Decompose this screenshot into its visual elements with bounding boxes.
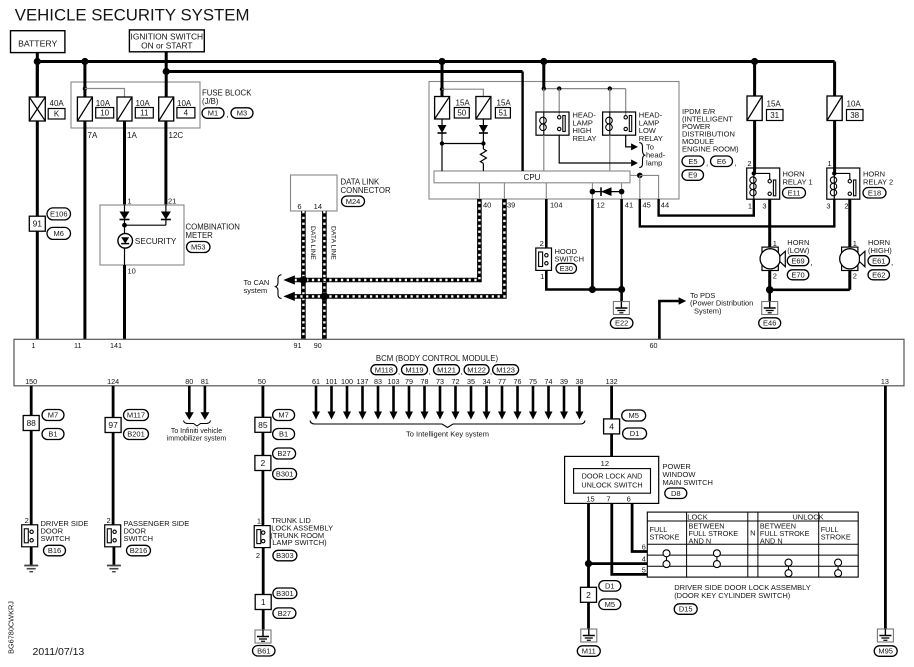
label pin 45	[643, 201, 651, 210]
wire bus2 to fuse4	[165, 72, 168, 98]
connector B301 b	[273, 588, 297, 599]
svg-text:4: 4	[609, 421, 614, 431]
door lock and unlock switch box	[574, 469, 651, 494]
svg-text:15A: 15A	[497, 99, 512, 108]
label horn relay1 pin 1	[748, 202, 752, 211]
arrow to PDS	[679, 297, 687, 305]
svg-text:(LOW): (LOW)	[787, 246, 810, 255]
fuse block J/B box	[71, 82, 200, 128]
label pin 44	[661, 201, 669, 210]
wire trunk switch to B301	[262, 548, 265, 595]
svg-text:74: 74	[545, 377, 553, 386]
node diode 41	[619, 189, 625, 195]
svg-text:B27: B27	[277, 449, 290, 458]
wire bus1 to fuse block	[83, 62, 86, 98]
svg-text:D8: D8	[671, 489, 681, 498]
label horn relay2 pin 2	[844, 202, 848, 211]
wire HL-low coil to CPU	[609, 135, 611, 171]
svg-text:44: 44	[661, 201, 669, 210]
node bus2-ignition	[163, 68, 170, 75]
connector M1	[202, 108, 224, 119]
label HORN RELAY 1	[783, 170, 813, 187]
label HORN (HIGH)	[868, 238, 892, 255]
svg-text:2: 2	[773, 272, 777, 281]
node diode join a	[440, 141, 444, 145]
diode D-a in meter	[120, 205, 130, 227]
connector B1 a	[42, 429, 64, 440]
wire BCM 132 to PW switch	[610, 386, 613, 457]
svg-text:SWITCH: SWITCH	[124, 534, 154, 543]
svg-text:73: 73	[436, 377, 444, 386]
connector E70	[787, 270, 809, 280]
connector D8	[665, 488, 687, 499]
svg-text:,: ,	[490, 367, 492, 376]
connector M121	[434, 365, 460, 375]
svg-text:MAIN SWITCH: MAIN SWITCH	[663, 478, 713, 487]
table contact circles	[663, 550, 842, 577]
connector 97 inline	[105, 418, 121, 433]
wire PW 15 down	[587, 503, 590, 629]
wire bus1 to relay feed	[542, 62, 545, 89]
svg-text:7A: 7A	[88, 131, 98, 140]
svg-text:137: 137	[357, 377, 369, 386]
node CPU out	[637, 173, 643, 179]
label BCM bottom pin 124	[107, 377, 119, 386]
svg-text:3: 3	[826, 202, 830, 211]
svg-text:M6: M6	[54, 229, 64, 238]
svg-text:75: 75	[529, 377, 537, 386]
wire horn low to ground	[768, 271, 771, 290]
svg-text:B61: B61	[257, 646, 270, 655]
connector M6	[47, 227, 71, 239]
svg-text:13: 13	[881, 377, 889, 386]
label To Intelligent Key system	[406, 430, 489, 439]
svg-text:LAMP SWITCH): LAMP SWITCH)	[272, 538, 327, 547]
hood switch	[536, 248, 552, 270]
svg-text:97: 97	[108, 420, 118, 430]
label To PDS	[690, 291, 753, 316]
label horn relay2 pin 3	[826, 202, 830, 211]
connector 91 inline	[29, 216, 45, 231]
label 1A	[127, 131, 137, 140]
connector E5	[682, 156, 704, 167]
label BCM bottom pin 81	[201, 377, 209, 386]
fuse 10A 4	[159, 97, 195, 121]
node relay feed c	[608, 86, 612, 90]
svg-text:M24: M24	[346, 197, 361, 206]
svg-text:UNLOCK SWITCH: UNLOCK SWITCH	[581, 480, 642, 489]
svg-text:B216: B216	[130, 546, 148, 555]
svg-text:N: N	[750, 529, 755, 538]
node ground line 41	[618, 286, 625, 293]
wire to ground E46	[768, 290, 771, 302]
label comma E5	[706, 159, 708, 168]
wire feed to HL-low contact	[625, 89, 627, 115]
label date 2011/07/13	[33, 646, 85, 658]
svg-text:B301: B301	[276, 589, 294, 598]
label HOOD SWITCH	[555, 247, 585, 264]
brace immobilizer	[184, 421, 211, 427]
connector M118	[371, 365, 397, 375]
data line DLC6 to BCM 91	[301, 211, 306, 339]
wire driver switch to ground	[30, 547, 33, 566]
arrow to headlamp low	[631, 143, 638, 150]
connector M24	[342, 196, 365, 207]
ground B61	[255, 630, 271, 643]
svg-text:2: 2	[540, 239, 544, 248]
svg-text:2011/07/13: 2011/07/13	[33, 646, 85, 658]
label PW pin 12	[601, 459, 609, 468]
label BCM top pin 1	[32, 341, 36, 350]
arrow CAN-L	[283, 292, 295, 301]
wire hood switch to ground line	[546, 270, 621, 289]
connector 88 inline	[23, 416, 39, 431]
relay horn 1	[747, 168, 780, 199]
wire horn relay1 to horn low	[768, 199, 771, 247]
svg-text:6: 6	[627, 494, 631, 503]
label DLC pin 6	[297, 202, 301, 211]
svg-text:DATA LINE: DATA LINE	[330, 226, 337, 260]
wire meter diode join	[125, 224, 166, 226]
label To head-lamp	[646, 143, 666, 168]
bus2 ignition feed	[165, 70, 523, 73]
label comma M121	[461, 367, 463, 376]
svg-text:1: 1	[257, 516, 261, 525]
svg-text:E9: E9	[688, 171, 697, 180]
wire bus1 to fuse 50	[441, 62, 444, 97]
diode under fuse 51	[479, 119, 488, 144]
svg-text:STROKE: STROKE	[650, 532, 680, 541]
label horn relay1 pin 2	[747, 159, 751, 168]
wire fusible link to BCM 1	[36, 121, 39, 339]
svg-text:lamp: lamp	[646, 158, 662, 167]
svg-text:E6: E6	[717, 157, 726, 166]
svg-text:To Infiniti vehicle: To Infiniti vehicle	[171, 428, 222, 435]
label PW pin 7	[606, 494, 610, 503]
svg-text:To Intelligent Key system: To Intelligent Key system	[406, 430, 489, 439]
wire BCM 124 to passenger door switch	[112, 386, 115, 525]
svg-text:E106: E106	[50, 210, 68, 219]
svg-text:RELAY 1: RELAY 1	[783, 177, 813, 186]
svg-text:E46: E46	[763, 319, 776, 328]
label pin 12	[597, 201, 605, 210]
svg-text:,: ,	[398, 367, 400, 376]
wire CPU pin 41 inside	[621, 183, 623, 199]
svg-text:150: 150	[25, 377, 37, 386]
label COMBINATION METER	[186, 223, 240, 240]
svg-text:104: 104	[550, 201, 563, 210]
svg-text:E18: E18	[868, 188, 881, 197]
wire fuse11 to meter 1	[123, 121, 126, 205]
label horn high pin 2	[853, 272, 857, 281]
svg-text:88: 88	[26, 418, 36, 428]
wire meter 10 to BCM 141	[123, 265, 126, 339]
fuse 10A 11	[117, 97, 153, 121]
svg-text:50: 50	[457, 109, 466, 118]
label horn high pin 1	[853, 239, 857, 248]
wire node15 to table row4	[589, 562, 648, 565]
connector 2 inline	[255, 456, 271, 471]
node bus1-relayfeed	[540, 58, 547, 65]
svg-text:E22: E22	[615, 319, 628, 328]
relay horn 2	[827, 168, 860, 199]
svg-text:10: 10	[100, 109, 109, 118]
svg-text:10A: 10A	[847, 100, 862, 109]
wire horn relay2 to horn high	[848, 199, 851, 247]
svg-text:83: 83	[374, 377, 382, 386]
svg-text:system: system	[244, 286, 268, 295]
svg-text:B1: B1	[279, 430, 288, 439]
wire CPU pin 104 inside	[545, 183, 547, 199]
label FUSE BLOCK (J/B)	[202, 89, 252, 107]
svg-text:SECURITY: SECURITY	[135, 237, 177, 246]
wire CPU pin 40 inside	[478, 183, 480, 199]
svg-text:LOCK: LOCK	[687, 512, 707, 521]
svg-text:M118: M118	[375, 365, 393, 374]
wire fuse10 to BCM 11	[83, 121, 86, 339]
BCM box	[14, 339, 904, 386]
svg-text:ENGINE ROOM): ENGINE ROOM)	[682, 144, 739, 153]
label horn relay1 pin 3	[762, 202, 766, 211]
svg-text:72: 72	[452, 377, 460, 386]
wire horn ground link	[770, 288, 850, 291]
security LED	[118, 225, 177, 265]
label comma E6	[735, 159, 737, 168]
node CAN-H junction	[300, 276, 308, 284]
connector B27 b	[273, 608, 296, 619]
label horn relay2 pin 1	[827, 159, 831, 168]
svg-text:4: 4	[642, 555, 646, 564]
svg-text:15: 15	[586, 494, 594, 503]
node CAN-L junction	[321, 293, 329, 301]
wire fuse10 to fuse11 branch	[85, 89, 125, 98]
label trunk pin 2	[256, 551, 260, 560]
svg-text:40: 40	[483, 201, 491, 210]
wire BCM 13 to ground	[884, 386, 887, 629]
label pin 41	[625, 201, 633, 210]
wire feed to HL-high contact	[558, 89, 560, 115]
label meter pin 21	[168, 197, 176, 206]
connector E6	[711, 156, 733, 167]
svg-text:RELAY 2: RELAY 2	[863, 177, 893, 186]
label BCM top pin 141	[110, 341, 122, 350]
connector E11	[783, 188, 806, 199]
svg-text:(DOOR KEY CYLINDER SWITCH): (DOOR KEY CYLINDER SWITCH)	[674, 591, 791, 600]
label pin 40	[483, 201, 491, 210]
svg-text:90: 90	[314, 341, 322, 350]
brace CAN	[276, 275, 282, 299]
svg-text:,: ,	[735, 159, 737, 168]
connector 2 inline d	[581, 587, 597, 602]
svg-text:M7: M7	[278, 411, 288, 420]
svg-text:B16: B16	[48, 546, 61, 555]
wire HL-high contact to headlamp	[559, 135, 631, 163]
wire fuse31 to horn relay1	[753, 121, 756, 174]
wire CPU to node 45	[630, 174, 640, 176]
svg-text:,: ,	[429, 367, 431, 376]
wire battery to bus	[36, 53, 39, 97]
svg-text:35: 35	[467, 377, 475, 386]
svg-text:CONNECTOR: CONNECTOR	[341, 186, 391, 195]
ground E46	[762, 302, 778, 315]
wire horn high to ground	[848, 271, 851, 290]
connector 85 inline	[255, 417, 271, 432]
connector B16	[44, 545, 66, 556]
wire bus1 to fusible link	[36, 62, 39, 98]
connector 1 inline	[255, 595, 271, 610]
wire pin 45 inside	[639, 175, 641, 199]
label DRIVER SIDE DOOR SWITCH	[41, 519, 89, 543]
connector E46	[759, 318, 781, 329]
label DLC pin 14	[314, 202, 322, 211]
svg-text:RELAY: RELAY	[639, 134, 663, 143]
svg-text:2: 2	[107, 516, 111, 525]
svg-text:BCM (BODY CONTROL MODULE): BCM (BODY CONTROL MODULE)	[376, 354, 499, 363]
svg-text:E61: E61	[872, 256, 885, 265]
brace to headlamp	[639, 143, 644, 168]
svg-text:(HIGH): (HIGH)	[868, 246, 892, 255]
svg-text:M5: M5	[628, 411, 638, 420]
label HORN (LOW)	[787, 238, 810, 255]
node diode join b	[481, 141, 485, 145]
label BCM bottom pin 132	[606, 377, 618, 386]
label BCM	[376, 354, 499, 363]
svg-text:BG6780CWKRJ: BG6780CWKRJ	[7, 601, 16, 654]
wire pin 45 run	[640, 199, 835, 226]
svg-text:1A: 1A	[127, 131, 137, 140]
arrow CAN-H	[283, 275, 295, 284]
label BCM top pin 91	[294, 341, 302, 350]
svg-text:81: 81	[201, 377, 209, 386]
connector E22	[610, 318, 633, 329]
wire CPU pin 12 inside	[591, 183, 593, 199]
svg-text:6: 6	[297, 202, 301, 211]
svg-text:103: 103	[388, 377, 400, 386]
wire to ground B61	[262, 610, 265, 630]
label comma M1 M3	[227, 110, 229, 119]
svg-text:11: 11	[140, 109, 149, 118]
svg-text:AND N: AND N	[760, 536, 783, 545]
wire BCM 50 to trunk switch	[261, 386, 264, 526]
svg-text:M121: M121	[437, 365, 456, 374]
wire diode to CPU	[441, 144, 443, 172]
wire diode join ipdm	[442, 143, 483, 145]
svg-text:E30: E30	[560, 264, 573, 273]
label TRUNK LID LOCK ASSEMBLY	[270, 516, 333, 547]
label DATA LINE 6	[309, 226, 316, 260]
label passenger switch pin 2	[107, 516, 111, 525]
svg-text:AND N: AND N	[689, 536, 712, 545]
label table pin 5	[642, 566, 646, 575]
label hood pin 2	[540, 239, 544, 248]
power window main switch box	[565, 456, 659, 503]
label IPDM E/R block	[682, 107, 739, 153]
connector M53	[187, 242, 211, 253]
svg-text:10A: 10A	[177, 99, 192, 108]
node horn ground	[766, 286, 774, 294]
svg-text:M3: M3	[237, 109, 247, 118]
label BCM top pin 60	[650, 341, 658, 350]
connector M119	[402, 365, 428, 375]
svg-text:M7: M7	[48, 411, 58, 420]
wire CPU 12 down	[591, 199, 594, 290]
svg-text:80: 80	[185, 377, 193, 386]
connector E18	[863, 188, 886, 199]
svg-text:15A: 15A	[456, 99, 471, 108]
svg-text:10A: 10A	[136, 99, 151, 108]
wire bus1 to fuse 31	[753, 62, 756, 97]
svg-text:5: 5	[642, 566, 646, 575]
svg-text:77: 77	[498, 377, 506, 386]
connector B1 b	[273, 429, 295, 440]
wires to intelligent key system	[312, 386, 584, 420]
driver side door switch	[22, 525, 38, 547]
svg-text:1: 1	[128, 197, 132, 206]
wire feed to HL-low coil	[609, 89, 611, 112]
svg-text:BATTERY: BATTERY	[18, 39, 57, 49]
label meter pin 10	[128, 267, 136, 276]
label driver switch pin 2	[25, 516, 29, 525]
svg-text:12: 12	[597, 201, 605, 210]
svg-text:3: 3	[762, 202, 766, 211]
svg-text:38: 38	[850, 111, 859, 120]
svg-text:1: 1	[261, 597, 266, 607]
data line CAN-H run	[295, 199, 480, 280]
wire pin 44 run	[659, 199, 754, 216]
ground passenger switch	[107, 566, 121, 572]
label DATA LINE 14	[330, 226, 337, 260]
connector 4 inline	[604, 419, 620, 434]
wire node to pin44 corner	[640, 175, 659, 199]
svg-text:1: 1	[32, 341, 36, 350]
svg-text:38: 38	[576, 377, 584, 386]
connector E69	[787, 256, 809, 266]
svg-text:,: ,	[706, 159, 708, 168]
bus1 battery feed	[37, 60, 834, 63]
svg-text:12C: 12C	[169, 131, 184, 140]
svg-text:M123: M123	[496, 365, 515, 374]
svg-text:M1: M1	[208, 109, 218, 118]
svg-text:40A: 40A	[50, 99, 65, 108]
label DRIVER SIDE DOOR LOCK ASSEMBLY	[674, 583, 811, 600]
svg-text:4: 4	[184, 109, 189, 118]
node meter diode join	[122, 223, 127, 228]
svg-text:85: 85	[258, 420, 268, 430]
connector B61	[253, 646, 276, 657]
connector B303	[273, 550, 297, 561]
svg-text:immobilizer system: immobilizer system	[167, 435, 227, 442]
wire to ground E22	[620, 290, 623, 302]
svg-text:M119: M119	[405, 365, 423, 374]
svg-text:SWITCH: SWITCH	[555, 255, 585, 264]
wire PW 7 to table row5	[612, 503, 648, 574]
svg-text:10: 10	[128, 267, 136, 276]
svg-text:M5: M5	[605, 600, 615, 609]
svg-text:VEHICLE SECURITY SYSTEM: VEHICLE SECURITY SYSTEM	[15, 6, 250, 25]
svg-text:E70: E70	[791, 270, 804, 279]
fuse 10A 38	[827, 96, 863, 121]
svg-text:2: 2	[844, 202, 848, 211]
svg-text:M122: M122	[467, 365, 486, 374]
connector M122	[464, 365, 489, 375]
svg-text:,: ,	[891, 258, 893, 267]
ground E22	[613, 302, 629, 315]
connector E30	[556, 263, 577, 273]
label To CAN system	[244, 278, 270, 295]
wire BCM 150 to driver door switch	[30, 386, 33, 525]
node bus1-fuse31	[751, 58, 758, 65]
svg-text:B303: B303	[276, 551, 294, 560]
